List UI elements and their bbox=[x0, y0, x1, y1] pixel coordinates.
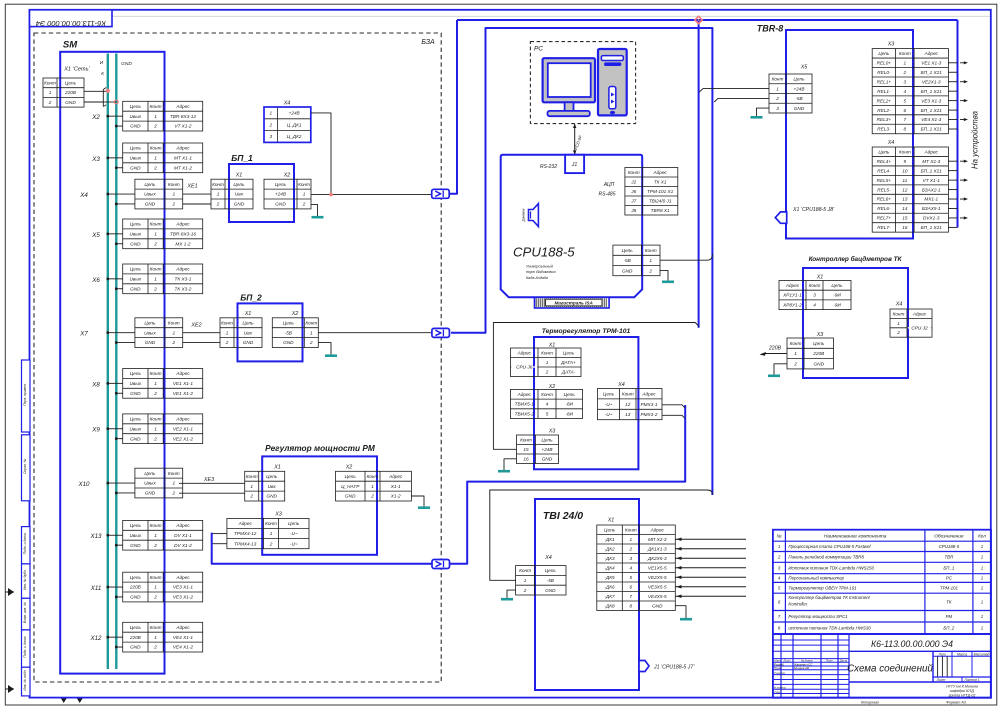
wire TBR X4.9 bbox=[948, 160, 968, 163]
bundle drop mid bbox=[698, 20, 700, 328]
svg-text:X3: X3 bbox=[816, 332, 824, 338]
svg-text:БП_1 Х21: БП_1 Х21 bbox=[921, 225, 943, 230]
svg-text:GND: GND bbox=[345, 494, 356, 499]
margin box Перв. примен. bbox=[22, 360, 31, 432]
svg-text:14: 14 bbox=[902, 206, 908, 211]
svg-text:Конт: Конт bbox=[150, 371, 162, 376]
svg-text:4: 4 bbox=[813, 302, 816, 307]
svg-text:Uвых: Uвых bbox=[130, 232, 142, 237]
svg-text:Ц_ДК2: Ц_ДК2 bbox=[287, 134, 302, 139]
svg-text:GND: GND bbox=[234, 202, 245, 207]
port table RS-485 bbox=[599, 168, 678, 216]
svg-text:X4: X4 bbox=[895, 302, 903, 308]
connector ТВI X1 bbox=[597, 518, 676, 611]
svg-text:X2: X2 bbox=[548, 384, 556, 390]
svg-text:7: 7 bbox=[629, 594, 632, 599]
svg-text:GND: GND bbox=[243, 340, 254, 345]
svg-text:11: 11 bbox=[902, 178, 907, 183]
svg-text:Конт: Конт bbox=[150, 267, 162, 272]
svg-text:Динамик: Динамик bbox=[522, 208, 526, 223]
svg-text:X4: X4 bbox=[617, 382, 625, 388]
svg-text:Магистраль ISA: Магистраль ISA bbox=[555, 301, 593, 306]
svg-text:1: 1 bbox=[217, 192, 220, 197]
svg-text:10: 10 bbox=[902, 168, 908, 173]
svg-text:ДК1Х1-3: ДК1Х1-3 bbox=[647, 546, 667, 551]
margin box Подп. и дата bbox=[22, 630, 31, 667]
svg-text:МП Х2-3: МП Х2-3 bbox=[648, 537, 667, 542]
svg-text:Цепь: Цепь bbox=[144, 471, 156, 476]
svg-text:1: 1 bbox=[524, 578, 527, 583]
wire X4.1 to bus U bbox=[106, 193, 134, 196]
svg-text:2: 2 bbox=[628, 546, 632, 551]
svg-text:Конт: Конт bbox=[298, 182, 310, 187]
svg-text:X1-2: X1-2 bbox=[390, 494, 401, 499]
svg-text:2: 2 bbox=[225, 340, 229, 345]
svg-text:Копировал: Копировал bbox=[861, 701, 879, 705]
svg-text:GND: GND bbox=[622, 268, 633, 273]
svg-text:X1-1: X1-1 bbox=[390, 484, 401, 489]
connector X4 (+24В distribution) bbox=[264, 101, 311, 143]
svg-text:Цепь: Цепь bbox=[130, 222, 142, 227]
svg-text:VE4Х5-5: VE4Х5-5 bbox=[648, 594, 667, 599]
svg-text:Цепь: Цепь bbox=[130, 523, 142, 528]
svg-text:АЦП: АЦП bbox=[603, 182, 615, 188]
block БП_1 bbox=[229, 153, 294, 222]
svg-text:X8: X8 bbox=[91, 381, 100, 388]
svg-text:X1: X1 bbox=[548, 342, 556, 348]
svg-text:МХ 1-2: МХ 1-2 bbox=[175, 241, 191, 246]
svg-text:Формат А3: Формат А3 bbox=[946, 701, 966, 705]
svg-text:-ДК2: -ДК2 bbox=[604, 546, 615, 551]
svg-text:X7: X7 bbox=[79, 331, 88, 338]
wire +24В bundle to ТРМ X3 bbox=[493, 323, 699, 450]
svg-text:5: 5 bbox=[629, 575, 632, 580]
svg-text:Конт: Конт bbox=[150, 625, 162, 630]
svg-text:XE2: XE2 bbox=[190, 323, 201, 329]
svg-text:1: 1 bbox=[629, 537, 632, 542]
connector TBR X1 to CPU bbox=[775, 207, 835, 223]
svg-text:REL0-: REL0- bbox=[877, 70, 891, 75]
svg-text:Адрес: Адрес bbox=[653, 170, 668, 175]
connector X13 bbox=[89, 520, 202, 550]
svg-text:X1 ‘СРU188-5 J8’: X1 ‘СРU188-5 J8’ bbox=[792, 207, 835, 213]
svg-text:J6: J6 bbox=[630, 189, 636, 194]
svg-text:TBR-8Х3-12: TBR-8Х3-12 bbox=[170, 114, 196, 119]
svg-text:Цепь: Цепь bbox=[283, 320, 295, 325]
ground БП_2 bbox=[318, 343, 337, 356]
svg-text:1: 1 bbox=[154, 114, 157, 119]
svg-text:источник питания ТDК-Lambda НW: источник питания ТDК-Lambda НWS30 bbox=[788, 626, 871, 631]
svg-text:СРU J6: СРU J6 bbox=[516, 365, 533, 370]
svg-text:X5: X5 bbox=[91, 232, 100, 239]
svg-text:GND: GND bbox=[121, 61, 132, 67]
svg-text:X10: X10 bbox=[77, 481, 90, 488]
svg-text:GND: GND bbox=[814, 361, 825, 366]
svg-text:2: 2 bbox=[545, 369, 549, 374]
svg-text:1: 1 bbox=[154, 635, 157, 640]
svg-text:X1: X1 bbox=[244, 311, 252, 317]
svg-text:1: 1 bbox=[154, 232, 157, 237]
svg-text:Цепь: Цепь bbox=[878, 51, 890, 56]
svg-text:REL4-: REL4- bbox=[877, 168, 891, 173]
wire БП_2 -5В to bundle bbox=[318, 332, 432, 334]
svg-text:РМХ3-1: РМХ3-1 bbox=[641, 402, 658, 407]
svg-text:9: 9 bbox=[904, 159, 907, 164]
svg-text:Универсальный: Универсальный bbox=[526, 265, 553, 269]
svg-text:220В: 220В bbox=[64, 90, 76, 95]
svg-text:2: 2 bbox=[153, 286, 157, 291]
svg-text:Конт: Конт bbox=[790, 341, 802, 346]
svg-text:Uвых: Uвых bbox=[130, 426, 142, 431]
wire TBR X4.10 bbox=[948, 170, 957, 172]
connector РМ X3 bbox=[227, 512, 309, 549]
wire X3.1 to bus U bbox=[106, 156, 122, 159]
svg-text:Конт: Конт bbox=[246, 474, 258, 479]
svg-text:2: 2 bbox=[302, 202, 306, 207]
svg-text:X4: X4 bbox=[887, 140, 895, 146]
svg-text:-8И: -8И bbox=[565, 411, 573, 416]
svg-text:Адрес: Адрес bbox=[924, 149, 939, 154]
svg-text:ТРМХ4-12: ТРМХ4-12 bbox=[234, 531, 257, 536]
svg-text:13: 13 bbox=[625, 412, 631, 417]
svg-text:X2: X2 bbox=[283, 173, 291, 179]
svg-text:VE4 Х1-2: VE4 Х1-2 bbox=[173, 645, 193, 650]
svg-text:REL3-: REL3- bbox=[877, 127, 891, 132]
svg-text:GND: GND bbox=[545, 588, 556, 593]
svg-text:Контроллер бацдметров ТК: Контроллер бацдметров ТК bbox=[809, 255, 903, 263]
svg-text:Масса: Масса bbox=[957, 652, 967, 656]
svg-text:XE3: XE3 bbox=[203, 477, 214, 483]
unit БЗА dashed boundary bbox=[34, 33, 441, 682]
svg-text:J1: J1 bbox=[571, 162, 578, 168]
connector X6 bbox=[91, 264, 202, 294]
svg-text:VE2 Х1-1: VE2 Х1-1 bbox=[173, 426, 193, 431]
svg-text:Цепь: Цепь bbox=[604, 527, 616, 532]
ground ТВI X4 bbox=[501, 590, 516, 599]
svg-text:Uвх: Uвх bbox=[268, 484, 277, 489]
svg-text:Цепь: Цепь bbox=[564, 392, 576, 397]
connector ТРМ X1 bbox=[511, 342, 582, 376]
svg-text:2: 2 bbox=[523, 588, 527, 593]
svg-text:GND: GND bbox=[130, 391, 141, 396]
svg-text:Uвых: Uвых bbox=[130, 381, 142, 386]
svg-text:Цепь: Цепь bbox=[130, 146, 142, 151]
wire TBR X4.13 bbox=[948, 197, 968, 200]
svg-text:Ц_НАГР: Ц_НАГР bbox=[341, 484, 360, 489]
wire X11.1 to bus U bbox=[106, 586, 122, 589]
svg-text:REL2-: REL2- bbox=[877, 108, 891, 113]
svg-text:16: 16 bbox=[523, 456, 529, 461]
wire TBR X3.4 bbox=[948, 90, 957, 92]
horizontal scan line bbox=[112, 15, 990, 17]
connector РМ X2 bbox=[336, 465, 412, 502]
wire X4.2 to bus GND bbox=[115, 203, 135, 206]
svg-text:13: 13 bbox=[902, 197, 908, 202]
svg-text:Адрес: Адрес bbox=[785, 283, 800, 288]
svg-text:Uвых: Uвых bbox=[144, 330, 156, 335]
footer note Формат А3 bbox=[946, 701, 966, 705]
wire X1 to buses with twist bbox=[84, 88, 116, 107]
svg-text:СРU188-5: СРU188-5 bbox=[513, 245, 575, 260]
block Контроллер ТК bbox=[803, 255, 908, 378]
svg-text:3: 3 bbox=[904, 79, 907, 84]
svg-text:Адрес: Адрес bbox=[175, 523, 190, 528]
component list table bbox=[773, 530, 991, 634]
svg-text:Цепь: Цепь bbox=[275, 182, 287, 187]
svg-text:X2: X2 bbox=[345, 465, 353, 471]
svg-text:Када-Ачдайв: Када-Ачдайв bbox=[526, 276, 548, 280]
ground ТРМ bbox=[498, 459, 517, 471]
svg-text:X3: X3 bbox=[91, 156, 100, 163]
svg-text:ТК Х1: ТК Х1 bbox=[654, 179, 667, 184]
svg-text:-U~: -U~ bbox=[605, 412, 613, 417]
connector ТК X4 bbox=[890, 302, 932, 338]
title block bbox=[773, 634, 991, 698]
svg-text:Конт: Конт bbox=[519, 568, 531, 573]
connector X8 bbox=[91, 369, 202, 399]
svg-text:К6-113.00.00.000 Э4: К6-113.00.00.000 Э4 bbox=[36, 19, 106, 28]
bundle entry XW3 bbox=[432, 560, 450, 569]
junction diamond on bus U bbox=[105, 88, 110, 93]
svg-text:Uвх: Uвх bbox=[235, 192, 244, 197]
svg-text:GND: GND bbox=[275, 202, 286, 207]
svg-text:Конт: Конт bbox=[150, 523, 162, 528]
wire X4.1 to +24В node bbox=[311, 113, 331, 195]
svg-text:СРU J2: СРU J2 bbox=[911, 325, 928, 330]
svg-text:Цепь: Цепь bbox=[130, 267, 142, 272]
wire TBR X3.6 bbox=[948, 109, 957, 111]
svg-text:БП_2: БП_2 bbox=[240, 293, 262, 303]
svg-text:Uвых: Uвых bbox=[130, 156, 142, 161]
bus Магистраль ISA bbox=[535, 297, 610, 308]
svg-text:ДАТА+: ДАТА+ bbox=[560, 360, 576, 365]
svg-text:Схема соединений: Схема соединений bbox=[847, 664, 933, 675]
svg-text:кафедра ЮТД: кафедра ЮТД bbox=[950, 689, 974, 693]
svg-text:Конт: Конт bbox=[899, 149, 911, 154]
svg-text:Подп. и дата: Подп. и дата bbox=[23, 636, 27, 657]
connector ТРМ X4 bbox=[598, 382, 663, 420]
svg-text:GND: GND bbox=[283, 340, 294, 345]
svg-text:1: 1 bbox=[154, 533, 157, 538]
svg-text:Цепь: Цепь bbox=[541, 437, 553, 442]
svg-text:Конт: Конт bbox=[168, 182, 180, 187]
svg-text:Контроллер бацдметров ТК Instr: Контроллер бацдметров ТК Instrument bbox=[788, 595, 870, 600]
block РМ Регулятор мощности bbox=[262, 443, 377, 555]
svg-text:2: 2 bbox=[896, 330, 900, 335]
svg-text:Конт: Конт bbox=[150, 146, 162, 151]
svg-text:Uвх: Uвх bbox=[244, 330, 253, 335]
svg-text:+24В: +24В bbox=[289, 111, 300, 116]
svg-text:GND: GND bbox=[130, 286, 141, 291]
link PC to J1 bbox=[573, 124, 583, 155]
harness XE1 wires bbox=[183, 184, 211, 205]
wire ТВI X1.5 input bbox=[675, 576, 746, 579]
junction diamond on rail bbox=[695, 16, 702, 23]
svg-text:Адрес: Адрес bbox=[175, 371, 190, 376]
svg-text:Адрес: Адрес bbox=[924, 51, 939, 56]
svg-text:1: 1 bbox=[649, 258, 652, 263]
wire X2.2 to bus GND bbox=[115, 125, 123, 128]
margin box Инв. № подл. bbox=[22, 667, 31, 696]
block ТВI 24/0 bbox=[535, 499, 639, 690]
wire TBR X4.11 bbox=[948, 179, 968, 182]
svg-text:SM: SM bbox=[63, 40, 78, 51]
connector X3 bbox=[91, 143, 202, 173]
svg-text:Адрес: Адрес bbox=[517, 392, 532, 397]
svg-text:1: 1 bbox=[371, 484, 374, 489]
svg-text:Адрес: Адрес bbox=[238, 521, 253, 526]
svg-text:И: И bbox=[100, 60, 104, 66]
svg-text:Цепь: Цепь bbox=[130, 417, 142, 422]
power table CPU -5В bbox=[613, 245, 660, 276]
svg-text:X1: X1 bbox=[273, 465, 281, 471]
connector X11 bbox=[90, 572, 203, 602]
svg-text:2: 2 bbox=[268, 122, 272, 127]
block SM bbox=[60, 40, 164, 674]
svg-text:Конт: Конт bbox=[899, 51, 911, 56]
svg-text:Конт: Конт bbox=[622, 391, 634, 396]
title stamp (mirrored designation) bbox=[30, 10, 113, 28]
svg-text:Цепь: Цепь bbox=[878, 149, 890, 154]
svg-text:МХ1-1: МХ1-1 bbox=[924, 197, 938, 202]
svg-text:Конт: Конт bbox=[625, 527, 637, 532]
svg-text:+24В: +24В bbox=[541, 447, 552, 452]
connector БП_2 X2 bbox=[272, 311, 318, 348]
connector X9 bbox=[91, 414, 202, 444]
svg-text:На устройства: На устройства bbox=[971, 110, 980, 169]
svg-text:Наименование компонента: Наименование компонента bbox=[824, 534, 887, 540]
svg-text:VT Х1-1: VT Х1-1 bbox=[923, 178, 941, 183]
svg-text:-9И: -9И bbox=[833, 293, 841, 298]
svg-text:220В: 220В bbox=[129, 585, 141, 590]
bundle drop right bbox=[957, 20, 959, 228]
wire X13.1 to bus U bbox=[106, 534, 122, 537]
svg-text:Конт: Конт bbox=[628, 170, 640, 175]
svg-text:ТВИХ5-1: ТВИХ5-1 bbox=[515, 402, 535, 407]
svg-text:Цепь: Цепь bbox=[144, 182, 156, 187]
svg-text:МТ Х1-1: МТ Х1-1 bbox=[174, 156, 192, 161]
svg-text:Адрес: Адрес bbox=[517, 350, 532, 355]
svg-text:1: 1 bbox=[303, 192, 306, 197]
svg-text:ТК Х3-1: ТК Х3-1 bbox=[175, 277, 192, 282]
svg-text:J7: J7 bbox=[630, 198, 636, 203]
svg-text:2: 2 bbox=[48, 100, 52, 105]
svg-text:X3: X3 bbox=[548, 429, 556, 435]
svg-text:№: № bbox=[777, 534, 782, 539]
svg-text:2: 2 bbox=[648, 268, 652, 273]
svg-text:3: 3 bbox=[776, 106, 779, 111]
wire ТВI X1.1 input bbox=[675, 538, 746, 541]
svg-text:Панель релейной коммутации ТВR: Панель релейной коммутации ТВR8 bbox=[788, 555, 864, 560]
svg-text:-8И: -8И bbox=[565, 402, 573, 407]
svg-text:REL1+: REL1+ bbox=[877, 79, 892, 84]
svg-text:VE1 Х1-1: VE1 Х1-1 bbox=[173, 381, 193, 386]
bundle entry XW2 bbox=[432, 328, 450, 337]
svg-text:REL2+: REL2+ bbox=[877, 98, 892, 103]
svg-text:БЗА: БЗА bbox=[421, 39, 435, 46]
svg-text:GND: GND bbox=[130, 436, 141, 441]
svg-text:GND: GND bbox=[145, 340, 156, 345]
svg-text:1: 1 bbox=[310, 330, 313, 335]
svg-text:Цепь: Цепь bbox=[288, 521, 300, 526]
svg-text:4: 4 bbox=[546, 402, 549, 407]
svg-text:12: 12 bbox=[625, 402, 631, 407]
connector ТРМ X2 bbox=[511, 384, 583, 419]
harness XE2 wires bbox=[183, 323, 220, 343]
svg-text:REL3+: REL3+ bbox=[877, 117, 892, 122]
svg-text:X4: X4 bbox=[544, 555, 552, 561]
connector X5 bbox=[91, 219, 202, 249]
svg-text:-5В: -5В bbox=[795, 96, 802, 101]
svg-text:-5В: -5В bbox=[285, 330, 292, 335]
svg-text:GND: GND bbox=[794, 106, 805, 111]
svg-text:2: 2 bbox=[793, 361, 797, 366]
wire X3.2 to bus GND bbox=[115, 166, 123, 169]
svg-text:Регулятор мощности SРС1: Регулятор мощности SРС1 bbox=[788, 614, 848, 619]
svg-text:Конт: Конт bbox=[168, 320, 180, 325]
svg-text:БП_2: БП_2 bbox=[943, 626, 954, 631]
svg-text:Обозначение: Обозначение bbox=[934, 534, 964, 540]
wire X7.1 to bus U bbox=[106, 331, 134, 334]
svg-text:1: 1 bbox=[904, 60, 907, 65]
connector J1 RS-232 bbox=[540, 155, 584, 173]
svg-text:Конт: Конт bbox=[893, 311, 905, 316]
svg-text:2: 2 bbox=[171, 340, 175, 345]
svg-text:-9И: -9И bbox=[833, 302, 841, 307]
svg-text:X1: X1 bbox=[235, 173, 243, 179]
svg-text:J2: J2 bbox=[630, 179, 636, 184]
junction ring on bus GND bbox=[114, 100, 118, 104]
svg-text:1: 1 bbox=[172, 481, 175, 486]
harness XE3 wires bbox=[179, 477, 245, 493]
footer note Копировал bbox=[861, 701, 879, 705]
junction +24В bbox=[329, 193, 333, 197]
svg-text:Kontroller: Kontroller bbox=[788, 602, 807, 607]
svg-text:ТРМХ4-13: ТРМХ4-13 bbox=[234, 541, 257, 546]
wire X11.2 to bus GND bbox=[115, 596, 123, 599]
svg-text:1: 1 bbox=[154, 277, 157, 282]
svg-text:Цепь: Цепь bbox=[242, 320, 254, 325]
svg-text:REL6+: REL6+ bbox=[877, 197, 892, 202]
svg-text:Адрес: Адрес bbox=[641, 391, 656, 396]
svg-text:2: 2 bbox=[370, 494, 374, 499]
svg-text:Цепь: Цепь bbox=[144, 320, 156, 325]
svg-text:1: 1 bbox=[546, 360, 549, 365]
wire X2.1 to bus U bbox=[106, 115, 122, 118]
svg-text:БП_1 Х21: БП_1 Х21 bbox=[921, 89, 943, 94]
wire БП_1 +24В to bundle bbox=[311, 194, 432, 196]
svg-text:REL5+: REL5+ bbox=[877, 178, 892, 183]
bundle centre loop bbox=[451, 28, 712, 495]
margin box Взам. инв. № bbox=[22, 598, 31, 630]
svg-text:Конт: Конт bbox=[305, 320, 317, 325]
wire X13.2 to bus GND bbox=[115, 544, 123, 547]
svg-text:6: 6 bbox=[629, 584, 632, 589]
svg-text:-U~: -U~ bbox=[290, 531, 298, 536]
svg-text:220В: 220В bbox=[768, 346, 782, 352]
svg-text:Конт: Конт bbox=[150, 104, 162, 109]
svg-text:-ДК5: -ДК5 bbox=[604, 575, 615, 580]
svg-text:Н.контр.: Н.контр. bbox=[774, 686, 786, 690]
svg-text:RS-485: RS-485 bbox=[599, 191, 616, 197]
svg-text:-U~: -U~ bbox=[290, 541, 298, 546]
wire X6.2 to bus GND bbox=[115, 287, 123, 290]
svg-text:X3: X3 bbox=[274, 512, 282, 518]
svg-text:Цепь: Цепь bbox=[831, 283, 843, 288]
bundle link to ТРМ X4 bbox=[450, 405, 686, 564]
svg-text:Перв. примен.: Перв. примен. bbox=[23, 383, 27, 406]
svg-text:Цепь: Цепь bbox=[130, 575, 142, 580]
